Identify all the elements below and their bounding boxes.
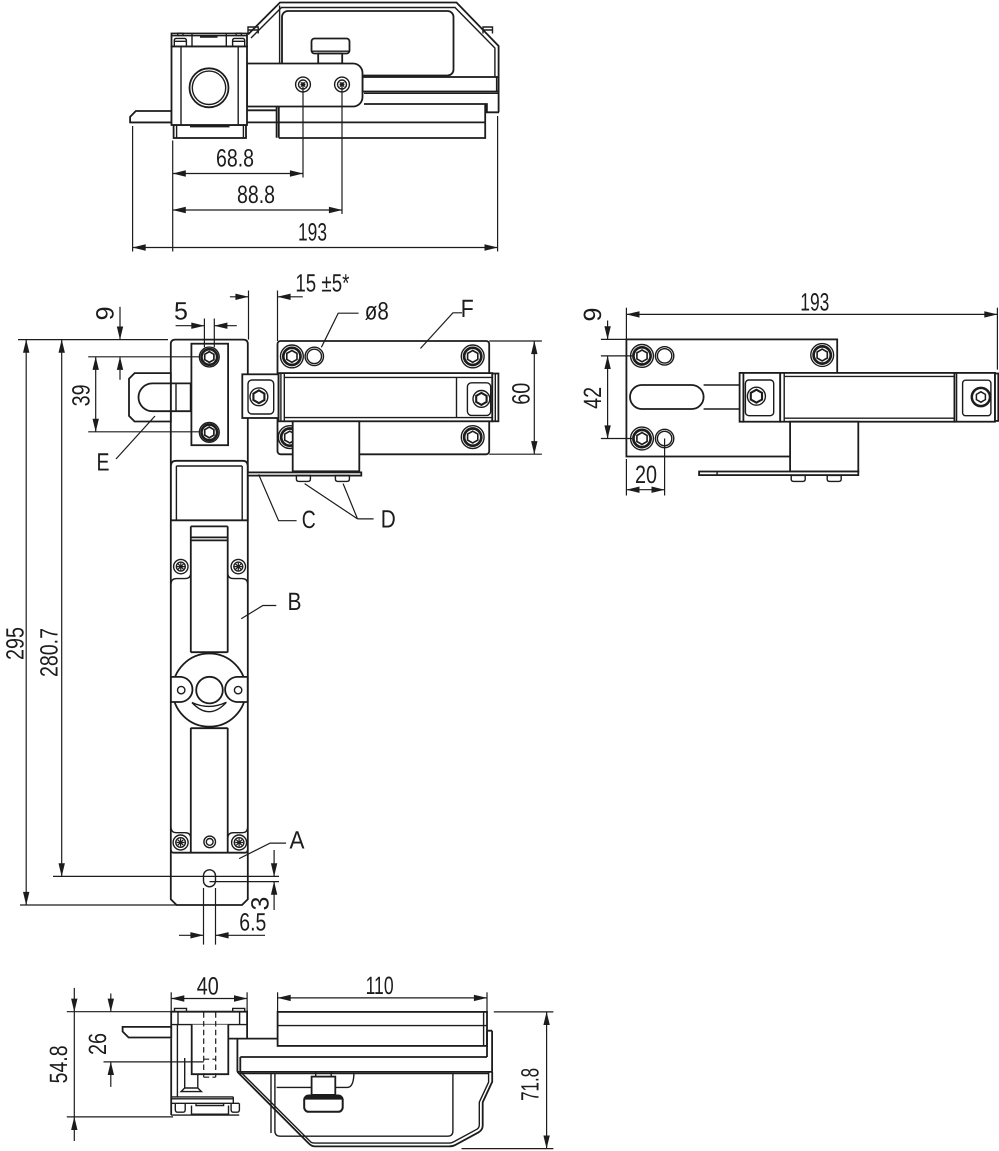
screw axis ext line — [88, 356, 199, 358]
lower cap of column — [171, 461, 248, 521]
svg-text:60: 60 — [507, 383, 535, 405]
svg-text:20: 20 — [635, 461, 657, 489]
plate top ext line right — [494, 1011, 554, 1013]
small hole between lower screws — [204, 836, 216, 848]
side screw top-right hex — [811, 344, 834, 367]
dim 3 arrows — [273, 850, 275, 876]
dim 40 — [171, 998, 247, 1000]
dim 280.7 — [61, 340, 63, 877]
dim 193 side — [626, 313, 997, 315]
svg-text:E: E — [97, 449, 110, 477]
side ext lines left — [601, 339, 632, 438]
base plate bottom view — [171, 1103, 239, 1115]
F hole o8 — [305, 347, 323, 365]
svg-text:9: 9 — [579, 308, 607, 322]
side slot stadium — [630, 385, 704, 409]
dim 193 top view — [133, 247, 498, 249]
svg-text:D: D — [381, 505, 396, 533]
carriage foot plate — [247, 472, 361, 475]
F screw bottom-left hex (partly hidden) — [278, 426, 301, 449]
side bar left cap — [740, 373, 744, 422]
dim 5 ext lines — [204, 319, 214, 348]
svg-text:F: F — [461, 295, 474, 323]
label A with leader — [239, 843, 286, 859]
dim 5 — [176, 325, 205, 327]
torx screw upper-left — [174, 559, 188, 573]
profile slot plate lower — [191, 652, 228, 853]
dim 42 side — [607, 356, 609, 439]
ext 193 right — [996, 308, 998, 370]
dim 20 ext lines — [626, 439, 664, 496]
svg-text:280.7: 280.7 — [36, 628, 64, 677]
arm rounded plate — [247, 64, 363, 107]
svg-text:9: 9 — [92, 306, 120, 320]
svg-text:40: 40 — [197, 973, 219, 1001]
mounting plate on column — [191, 344, 228, 446]
latch bar body — [279, 373, 493, 421]
side view dimensions — [579, 289, 997, 496]
rosette ear left — [171, 677, 193, 702]
housing bottom ext line — [462, 1148, 554, 1150]
base foot screw left — [175, 1103, 185, 1112]
ext 110 left — [277, 992, 279, 1012]
dim 6.5 ext lines — [204, 888, 216, 945]
housing left slant tab — [248, 27, 258, 34]
shelf lines — [171, 1097, 233, 1103]
label F with leader — [420, 313, 462, 349]
ext 193 left — [625, 308, 627, 340]
top ext line — [18, 339, 168, 341]
label B with leader — [241, 606, 276, 619]
svg-text:110: 110 — [366, 972, 394, 1000]
rosette outer circle — [173, 654, 246, 727]
column profile B outline — [171, 340, 248, 905]
dim 60 ext lines — [489, 341, 542, 454]
label o8 with leader — [321, 313, 358, 347]
knob stem bottom view — [312, 1072, 336, 1095]
svg-text:15 ±5*: 15 ±5* — [295, 269, 349, 297]
mid rail edges right of arm — [364, 104, 499, 122]
svg-text:295: 295 — [2, 627, 30, 660]
lower screw axis ext line — [88, 431, 199, 433]
top view dimensions — [133, 85, 498, 252]
dim 39 — [95, 357, 97, 432]
plate hex screw top — [199, 347, 219, 367]
dim 295 — [25, 340, 27, 905]
dim 26 — [110, 994, 112, 1012]
side foot screw left — [791, 475, 805, 481]
cube bore circle — [190, 68, 229, 107]
side plate — [626, 339, 837, 456]
base foot screw right — [231, 1103, 239, 1112]
recess curve bottom-left — [171, 827, 191, 841]
back plate 110 — [278, 1012, 487, 1046]
rosette ear right — [225, 677, 248, 702]
svg-text:54.8: 54.8 — [45, 1045, 73, 1083]
carriage edge bottom view — [277, 1074, 354, 1088]
rod lines from slot to bar — [704, 385, 740, 409]
svg-text:5: 5 — [174, 298, 188, 326]
side bar left block — [743, 373, 780, 422]
ext line body right — [497, 116, 499, 252]
label C with leader — [259, 474, 297, 520]
hidden bolt dashed — [204, 1012, 216, 1077]
dim 71.8 — [546, 1012, 548, 1149]
slide plate F — [278, 341, 490, 454]
oval mounting hole A — [204, 870, 216, 887]
side foot screw right — [827, 475, 841, 481]
profile slot plate upper — [191, 526, 228, 652]
housing body outer outline — [248, 3, 499, 113]
bottom rail — [237, 1031, 492, 1072]
bottom ext line — [20, 904, 177, 906]
keeper tab bottom view — [123, 1027, 172, 1038]
recess curve bottom-right — [228, 827, 248, 841]
side foot plate — [699, 472, 858, 476]
hole centre ext line — [53, 875, 279, 877]
label E with leader — [116, 416, 155, 459]
rosette crescent — [192, 702, 227, 711]
recess curve top-left — [171, 570, 191, 584]
block top ext line left — [67, 1011, 171, 1013]
dim 60 — [533, 341, 535, 454]
side bar right end sliver — [995, 374, 998, 421]
dim 88.8 — [173, 209, 342, 211]
carriage housing C — [293, 421, 360, 471]
F screw top-right hex — [461, 345, 484, 368]
dim 54.8 — [73, 988, 75, 1012]
dim 6.5 — [179, 934, 204, 936]
ext line screw S2 — [341, 85, 343, 215]
dim 68.8 — [173, 173, 303, 175]
foot screw right — [335, 475, 349, 481]
pawl housing — [192, 1025, 229, 1075]
torx screw lower-left — [173, 835, 188, 850]
recess curve top-right — [228, 570, 248, 584]
dim 9 front — [119, 307, 121, 340]
cap screw left — [174, 33, 186, 46]
block inner wall line — [176, 1025, 178, 1097]
latch bar right end cap — [492, 374, 498, 422]
cube block base — [174, 125, 246, 138]
arm screw right — [335, 77, 350, 92]
clamp bracket seen from top — [247, 106, 279, 138]
svg-text:88.8: 88.8 — [237, 181, 275, 209]
octagon inner shell — [240, 1072, 488, 1144]
svg-text:C: C — [302, 506, 316, 534]
long rail lower line — [130, 121, 485, 123]
octagon inner cavity — [240, 1073, 489, 1136]
label D with leaders — [305, 484, 374, 519]
dim 9 side — [607, 321, 609, 340]
latch bar right block — [457, 377, 491, 417]
octagon outer shell — [237, 1072, 492, 1147]
knob head bottom view — [304, 1096, 343, 1112]
housing lid rounded rect — [282, 11, 454, 76]
plate hex screw bottom — [199, 423, 219, 443]
side screw top-left hex — [631, 345, 654, 368]
dim 15 +-5 ext lines — [249, 291, 278, 342]
base centre block — [192, 1103, 229, 1114]
hook block cap screw nubs — [175, 1008, 245, 1011]
ext 40 left — [170, 992, 172, 1011]
F screw bottom-right hex — [461, 426, 484, 449]
dim 20 — [626, 489, 664, 491]
recess bottom edge — [171, 850, 248, 853]
base bottom ext line — [67, 1116, 173, 1118]
housing right slant tab — [483, 27, 493, 34]
dim 110 — [278, 997, 487, 999]
torx screw upper-right — [231, 559, 245, 573]
side hole bottom-left — [655, 429, 673, 447]
bracket edge to plate — [228, 1039, 277, 1072]
svg-text:42: 42 — [579, 387, 607, 409]
keeper plate E — [129, 373, 171, 421]
svg-text:6.5: 6.5 — [239, 909, 266, 937]
long rail top line with left tab — [130, 111, 171, 122]
svg-text:A: A — [290, 826, 305, 854]
ext line tab left — [132, 126, 134, 252]
foot screw left — [296, 475, 310, 481]
F screw top-left hex — [281, 345, 304, 368]
side screw bottom-left hex — [631, 427, 654, 450]
column edges visible in slot — [171, 383, 176, 411]
arm screw left — [296, 77, 311, 92]
ext line screw S1 — [302, 85, 304, 178]
back rail (bar1) — [363, 77, 499, 93]
bottom view dimensions — [45, 972, 553, 1149]
knob cap — [312, 39, 350, 54]
front view dimensions — [2, 269, 542, 944]
svg-text:193: 193 — [800, 289, 829, 317]
side hole top-left — [655, 347, 673, 365]
svg-text:68.8: 68.8 — [216, 145, 254, 173]
housing body inner wall — [251, 8, 495, 78]
knob stem — [318, 54, 342, 64]
side bar right block — [955, 373, 996, 422]
ext 40 right — [246, 992, 248, 1011]
svg-text:ø8: ø8 — [365, 298, 389, 326]
keeper slot — [138, 383, 190, 411]
pawl tip — [181, 1058, 201, 1092]
dim 3 line — [210, 881, 280, 883]
lower rail bottom — [279, 122, 485, 138]
svg-text:39: 39 — [68, 384, 96, 406]
svg-text:26: 26 — [84, 1033, 112, 1055]
cap screw right — [233, 33, 245, 46]
cube block main — [172, 47, 248, 128]
ext line block left — [172, 141, 174, 252]
side bar body — [780, 373, 954, 422]
svg-text:B: B — [288, 588, 302, 616]
torx screw lower-right — [232, 835, 247, 850]
cube block cap — [172, 34, 248, 47]
svg-text:193: 193 — [298, 219, 327, 247]
bolt axis ext line — [104, 1061, 204, 1063]
dim 15 +-5 — [230, 296, 249, 298]
latch bar left block — [242, 374, 278, 418]
svg-text:71.8: 71.8 — [516, 1068, 544, 1101]
rosette inner circle — [196, 677, 223, 704]
side carriage housing — [790, 422, 858, 472]
hook block body — [171, 1012, 247, 1115]
ext 110 right — [486, 992, 488, 1012]
